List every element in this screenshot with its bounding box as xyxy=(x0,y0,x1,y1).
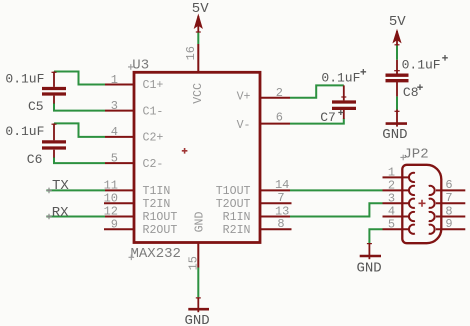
svg-text:VCC: VCC xyxy=(192,83,205,104)
svg-text:1: 1 xyxy=(388,166,395,180)
JP2 pin 4 xyxy=(383,205,415,222)
svg-text:7: 7 xyxy=(277,191,284,205)
JP2 pin 7 xyxy=(429,191,466,208)
JP2 pin 3 xyxy=(383,191,415,208)
JP2 pin 5 xyxy=(383,217,415,234)
pin 15 GND xyxy=(187,211,207,270)
wire pin 15 to GND xyxy=(197,268,199,298)
svg-text:GND: GND xyxy=(357,260,382,276)
wire pin 13 to JP2 pin 3 xyxy=(290,203,383,216)
svg-text:1: 1 xyxy=(111,73,118,87)
capacitor C5 xyxy=(5,72,66,115)
pin 5 C2- xyxy=(105,151,163,170)
wire C6 bottom to pin 5 xyxy=(54,157,105,163)
connector JP2 DB9 body xyxy=(402,165,441,243)
svg-text:8: 8 xyxy=(277,217,284,231)
pin 8 R2IN xyxy=(223,217,292,237)
pin 4 C2+ xyxy=(105,125,163,144)
wire 5V to C8 top xyxy=(396,46,398,60)
pin 1 C1+ xyxy=(105,73,163,92)
svg-text:5V: 5V xyxy=(192,1,209,17)
svg-text:6: 6 xyxy=(445,178,452,192)
svg-text:3: 3 xyxy=(388,191,395,205)
svg-text:C2-: C2- xyxy=(143,158,164,171)
power 5V above C8 xyxy=(389,14,406,46)
pin 2 V+ xyxy=(237,86,290,103)
svg-text:5: 5 xyxy=(388,217,395,231)
wire JP2 pin 5 to GND xyxy=(369,229,382,243)
ground below JP2 xyxy=(357,243,382,276)
wire pin 14 to JP2 pin 2 xyxy=(290,189,383,191)
wire C5 bottom to pin 3 xyxy=(54,103,105,111)
svg-text:JP2: JP2 xyxy=(403,146,428,162)
net label TX xyxy=(46,178,69,194)
svg-text:C1+: C1+ xyxy=(143,79,164,92)
svg-text:T1OUT: T1OUT xyxy=(216,185,251,198)
svg-text:C2+: C2+ xyxy=(143,132,164,145)
svg-text:T2OUT: T2OUT xyxy=(216,198,251,211)
JP2 pin 1 xyxy=(383,166,415,183)
svg-text:R2IN: R2IN xyxy=(223,224,251,237)
wire TX to pin 11 xyxy=(46,189,105,191)
pin 9 R2OUT xyxy=(104,217,177,237)
svg-text:GND: GND xyxy=(382,127,407,143)
JP2 pin 2 xyxy=(383,179,415,196)
svg-text:11: 11 xyxy=(104,179,118,193)
pin 6 V- xyxy=(237,111,290,132)
capacitor C7 xyxy=(320,69,366,125)
IC U3 origin cross xyxy=(182,148,188,154)
pin 3 C1- xyxy=(105,99,163,118)
pin 14 T1OUT xyxy=(216,178,290,198)
svg-text:6: 6 xyxy=(276,111,283,125)
svg-text:C7: C7 xyxy=(320,110,336,125)
JP2 pin 6 xyxy=(429,178,466,195)
svg-text:R1IN: R1IN xyxy=(223,211,251,224)
capacitor C8 xyxy=(386,55,448,100)
svg-text:GND: GND xyxy=(185,313,210,326)
svg-text:TX: TX xyxy=(52,178,69,194)
svg-text:MAX232: MAX232 xyxy=(131,246,181,262)
pin 13 R1IN xyxy=(223,204,290,224)
pin 12 R1OUT xyxy=(104,205,178,225)
power 5V above IC xyxy=(192,1,209,32)
svg-text:4: 4 xyxy=(111,125,118,139)
svg-text:0.1uF: 0.1uF xyxy=(5,72,44,87)
IC U3 MAX232 body xyxy=(134,72,260,242)
svg-text:9: 9 xyxy=(445,217,452,231)
pin 7 T2OUT xyxy=(216,191,292,211)
svg-text:0.1uF: 0.1uF xyxy=(5,124,44,139)
wire pin 6 to C7 bottom xyxy=(290,119,344,124)
JP2 pin 8 xyxy=(429,204,466,221)
capacitor C6 xyxy=(5,123,66,167)
wire 5V to pin 16 xyxy=(197,32,199,44)
svg-text:10: 10 xyxy=(104,192,118,206)
connector JP2 label xyxy=(400,146,428,162)
svg-text:C1-: C1- xyxy=(143,105,164,118)
svg-text:RX: RX xyxy=(52,205,69,221)
svg-text:13: 13 xyxy=(275,204,289,218)
svg-text:5: 5 xyxy=(111,151,118,165)
svg-text:V+: V+ xyxy=(237,90,251,103)
svg-text:3: 3 xyxy=(111,99,118,113)
pin 10 T2IN xyxy=(104,192,171,211)
wire pin 2 to C7 top xyxy=(290,85,344,97)
svg-text:U3: U3 xyxy=(132,57,149,73)
svg-text:2: 2 xyxy=(276,86,283,100)
JP2 pin 9 xyxy=(429,217,466,234)
wire C6 top to pin 4 xyxy=(54,123,105,136)
svg-text:2: 2 xyxy=(388,179,395,193)
ground below IC pin 15 xyxy=(185,297,210,326)
pin 16 VCC xyxy=(184,44,205,104)
svg-text:V-: V- xyxy=(237,119,251,132)
svg-text:C5: C5 xyxy=(28,99,44,114)
svg-text:0.1uF: 0.1uF xyxy=(321,70,360,85)
wire RX to pin 12 xyxy=(46,216,105,218)
value MAX232 origin cross xyxy=(129,255,135,261)
svg-text:GND: GND xyxy=(194,211,207,232)
svg-text:14: 14 xyxy=(275,178,289,192)
svg-text:C8: C8 xyxy=(403,85,419,100)
svg-text:C6: C6 xyxy=(27,152,43,167)
svg-text:5V: 5V xyxy=(389,14,406,30)
svg-text:T1IN: T1IN xyxy=(143,185,171,198)
wire C8 bottom to GND xyxy=(396,96,398,109)
wire C5 top to pin 1 xyxy=(54,72,105,85)
connector JP2 origin cross xyxy=(419,200,426,207)
net label RX xyxy=(46,205,69,221)
svg-text:T2IN: T2IN xyxy=(143,198,171,211)
svg-text:0.1uF: 0.1uF xyxy=(402,58,441,73)
svg-text:R2OUT: R2OUT xyxy=(143,224,178,237)
svg-text:R1OUT: R1OUT xyxy=(143,211,178,224)
ground below C8 xyxy=(382,110,407,144)
svg-text:7: 7 xyxy=(445,191,452,205)
svg-text:9: 9 xyxy=(111,217,118,231)
label U3 origin cross xyxy=(128,64,134,70)
pin 11 T1IN xyxy=(104,179,171,199)
svg-text:16: 16 xyxy=(184,46,198,60)
